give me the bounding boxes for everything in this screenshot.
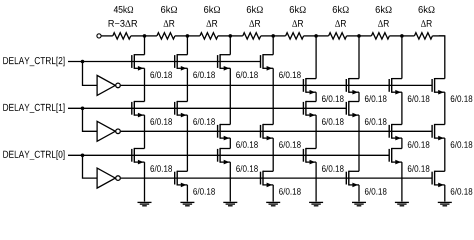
value label dR of R2 [164, 20, 175, 27]
net label DELAY_CTRL[2] [3, 57, 64, 67]
W/L value label of M7b [451, 141, 473, 148]
W/L value label of M2a [236, 71, 258, 78]
value label dR of R8 [421, 20, 432, 27]
wire: M4b source to M4c drain [315, 115, 317, 148]
W/L value label of M4b [322, 118, 344, 125]
wire: M2c source down to ground [229, 162, 231, 201]
wire: DELAY_CTRL[2] line [68, 61, 261, 63]
wire: M0b source to M0c drain [144, 115, 146, 148]
W/L value label of M6a [408, 95, 430, 102]
wire: DELAY_CTRL[0] line [68, 154, 389, 156]
wire: M5a source to M5b drain [358, 92, 360, 101]
resistor R6 (6k, dR) [316, 33, 359, 39]
wire: M1a source to M1b drain [186, 68, 188, 101]
node tap3 [229, 34, 233, 38]
wire: M7c source down to ground [444, 185, 446, 202]
wire: inverted DELAY_CTRL[2] line [121, 84, 432, 86]
value label 6kOhm of R6 [333, 6, 349, 13]
wire: M0c source down to ground [144, 162, 146, 201]
ground of column 0 [138, 202, 152, 205]
resistor R1 (45k, R-3dR) [113, 33, 131, 39]
value label dR of R5 [292, 20, 303, 27]
W/L value label of M5c [365, 188, 387, 195]
wire: branch from DELAY_CTRL[0] line down to inverter input [83, 155, 98, 178]
wire: tap7 down to M6a drain [401, 36, 403, 79]
value label R-3dR [109, 20, 138, 27]
wire: tap8 down to M7a drain [439, 36, 445, 79]
resistor R5 (6k, dR) [273, 33, 316, 39]
W/L value label of M4c [322, 165, 344, 172]
wire: M2a source to M2b drain [229, 68, 231, 124]
transistor M7b (NMOS) [432, 124, 445, 140]
transistor M2c (NMOS) [218, 148, 231, 165]
value label 6kOhm of R3 [204, 6, 220, 13]
value label dR of R6 [335, 20, 346, 27]
wire: branch from DELAY_CTRL[1] line down to inverter input [83, 108, 98, 131]
wire: tap3 down to M2a drain [229, 36, 231, 55]
transistor M4b (NMOS) [303, 101, 316, 118]
wire: M2b source to M2c drain [229, 138, 231, 148]
transistor M7a (NMOS) [432, 78, 445, 95]
wire: M7b source to M7c drain [444, 138, 446, 171]
wire: tap4 down to M3a drain [272, 36, 274, 55]
W/L value label of M7a [451, 95, 473, 102]
ground of column 1 [180, 202, 194, 205]
transistor M3c (NMOS) [261, 171, 274, 188]
W/L value label of M2c [236, 165, 258, 172]
wire: M5c source down to ground [358, 185, 360, 202]
node: junction on DELAY_CTRL[1] line [81, 107, 85, 111]
resistor R3 (6k, dR) [187, 33, 230, 39]
W/L value label of M3a [279, 71, 301, 78]
transistor M4c (NMOS) [303, 148, 316, 165]
transistor M2a (NMOS) [218, 54, 231, 71]
W/L value label of M3c [279, 188, 301, 195]
ground of column 4 [309, 202, 323, 205]
transistor M0c (NMOS) [132, 148, 145, 165]
wire: tap2 down to M1a drain [186, 36, 188, 55]
value label dR of R3 [207, 20, 218, 27]
wire: DELAY_CTRL[1] line [68, 107, 346, 109]
W/L value label of M1b [193, 118, 215, 125]
wire: M3a source to M3b drain [272, 68, 274, 124]
W/L value label of M1c [193, 188, 215, 195]
inverter for DELAY_CTRL[0] [97, 168, 120, 188]
W/L value label of M2b [236, 141, 258, 148]
input terminal [97, 34, 101, 38]
node tap2 [186, 34, 190, 38]
ground of column 6 [395, 202, 409, 205]
value label 6kOhm of R7 [376, 6, 392, 13]
resistor R4 (6k, dR) [230, 33, 273, 39]
transistor M2b (NMOS) [218, 124, 231, 140]
wire: M1c source down to ground [186, 185, 188, 202]
W/L value label of M5b [365, 118, 387, 125]
wire: tap6 down to M5a drain [358, 36, 360, 79]
value label 6kOhm of R2 [161, 6, 177, 13]
value label dR of R7 [378, 20, 389, 27]
wire: M1b source to M1c drain [186, 115, 188, 171]
wire: tap1 down to M0a drain [144, 36, 146, 55]
transistor M5c (NMOS) [346, 171, 359, 188]
wire: M3c source down to ground [272, 185, 274, 202]
ground of column 7 [438, 202, 452, 205]
W/L value label of M5a [365, 95, 387, 102]
transistor M3a (NMOS) [261, 54, 274, 71]
wire: M7a source to M7b drain [444, 92, 446, 124]
ground of column 2 [223, 202, 237, 205]
transistor M4a (NMOS) [303, 78, 316, 95]
resistor R2 (6k, dR) [145, 33, 188, 39]
value label dR of R4 [249, 20, 260, 27]
W/L value label of M1a [193, 71, 215, 78]
resistor R8 (6k, dR) [402, 33, 445, 39]
transistor M6a (NMOS) [389, 78, 402, 95]
W/L value label of M4a [322, 95, 344, 102]
transistor M0b (NMOS) [132, 101, 145, 118]
transistor M3b (NMOS) [261, 124, 274, 140]
transistor M6c (NMOS) [389, 148, 402, 165]
wire: tap5 down to M4a drain [315, 36, 317, 79]
inverter for DELAY_CTRL[1] [97, 121, 120, 141]
wire: branch from DELAY_CTRL[2] line down to inverter input [83, 62, 98, 86]
transistor M1b (NMOS) [175, 101, 188, 118]
resistor R7 (6k, dR) [359, 33, 402, 39]
wire: terminal to R1 [101, 35, 113, 37]
value label 6kOhm of R8 [419, 6, 435, 13]
wire: M6b source to M6c drain [401, 138, 403, 148]
transistor M7c (NMOS) [432, 171, 445, 188]
net label DELAY_CTRL[0] [3, 150, 64, 160]
transistor M5a (NMOS) [346, 78, 359, 95]
node tap4 [271, 34, 275, 38]
wire: inverted DELAY_CTRL[1] line [121, 130, 432, 132]
net label DELAY_CTRL[1] [3, 104, 64, 114]
W/L value label of M6b [408, 141, 430, 148]
wire: M4a source to M4b drain [315, 92, 317, 101]
wire: inverted DELAY_CTRL[0] line [121, 177, 432, 179]
value label 6kOhm of R4 [247, 6, 263, 13]
wire: R1 to tap1 [131, 35, 145, 37]
node: junction on DELAY_CTRL[2] line [81, 60, 85, 64]
wire: M4c source down to ground [315, 162, 317, 201]
transistor M6b (NMOS) [389, 124, 402, 140]
node tap7 [400, 34, 404, 38]
W/L value label of M3b [279, 141, 301, 148]
transistor M0a (NMOS) [132, 54, 145, 71]
W/L value label of M0c [150, 165, 172, 172]
wire: M6c source down to ground [401, 162, 403, 201]
node tap1 [143, 34, 147, 38]
node tap5 [314, 34, 318, 38]
W/L value label of M0b [150, 118, 172, 125]
ground of column 5 [352, 202, 366, 205]
W/L value label of M6c [408, 165, 430, 172]
inverter for DELAY_CTRL[2] [97, 75, 120, 95]
wire: M3b source to M3c drain [272, 138, 274, 171]
transistor M1a (NMOS) [175, 54, 188, 71]
node tap6 [357, 34, 361, 38]
wire: M6a source to M6b drain [401, 92, 403, 124]
node: junction on DELAY_CTRL[0] line [81, 154, 85, 158]
value label 45kOhm [114, 6, 133, 13]
wire: M0a source to M0b drain [144, 68, 146, 101]
value label 6kOhm of R5 [290, 6, 306, 13]
transistor M1c (NMOS) [175, 171, 188, 188]
W/L value label of M0a [150, 71, 172, 78]
ground of column 3 [266, 202, 280, 205]
transistor M5b (NMOS) [346, 101, 359, 118]
W/L value label of M7c [451, 188, 473, 195]
wire: M5b source to M5c drain [358, 115, 360, 171]
